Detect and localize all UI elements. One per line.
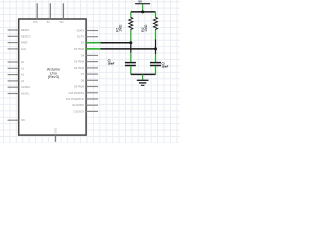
wire bottom bus to ground bbox=[131, 73, 156, 75]
label Arduino Uno (Rev3) bbox=[47, 68, 60, 79]
svg-text:D12/MISO: D12/MISO bbox=[72, 104, 84, 107]
pin 3V3 (top) bbox=[33, 3, 38, 24]
svg-text:AREF: AREF bbox=[21, 42, 28, 45]
pin VIN (top) bbox=[59, 3, 63, 24]
node wire R1 lead to junction (green) bbox=[130, 30, 132, 41]
pin D9 PWM (right) bbox=[74, 86, 98, 89]
svg-text:A5/SCL: A5/SCL bbox=[21, 93, 30, 96]
pin D2 (right) bbox=[81, 42, 98, 45]
pin 5V (top) bbox=[47, 3, 51, 24]
svg-text:100nF: 100nF bbox=[162, 66, 169, 69]
pin N/C (left) bbox=[8, 119, 26, 122]
label R2 1M ohm bbox=[141, 24, 148, 32]
pin D5 PWM (right) bbox=[74, 61, 98, 64]
junction D3/R2/C2 bbox=[154, 47, 157, 50]
pin D12/MISO (right) bbox=[72, 104, 98, 107]
svg-text:VIN: VIN bbox=[59, 21, 63, 24]
pin D8 (right) bbox=[81, 79, 98, 82]
svg-text:D10 PWM/SS: D10 PWM/SS bbox=[69, 92, 85, 95]
wire 5V bus bbox=[131, 11, 156, 13]
capacitor C1 bbox=[125, 63, 136, 66]
label R1 1M ohm bbox=[115, 24, 122, 32]
capacitor C1 top lead (green) bbox=[130, 53, 132, 63]
capacitor C2 top lead (green) bbox=[155, 54, 157, 62]
svg-text:D13/SCK: D13/SCK bbox=[74, 110, 85, 113]
svg-text:RESET: RESET bbox=[21, 29, 30, 32]
pin D7 (right) bbox=[81, 73, 98, 76]
pin RESET (left) bbox=[8, 29, 30, 32]
svg-text:5V: 5V bbox=[47, 21, 50, 24]
wire D3 node black segment bbox=[101, 48, 156, 50]
C1 bottom lead bbox=[130, 66, 132, 74]
pin D6 PWM (right) bbox=[74, 67, 98, 70]
pin D1/TX (right) bbox=[77, 36, 98, 39]
resistor R2 bbox=[154, 17, 158, 30]
junction on 5V bus bbox=[141, 10, 144, 13]
svg-text:GND: GND bbox=[55, 128, 58, 134]
node wire R2 to C2 (black) bbox=[155, 40, 157, 55]
pin A2 (left) bbox=[8, 74, 25, 77]
ground stub bbox=[142, 74, 144, 79]
svg-text:D3 PWM: D3 PWM bbox=[74, 48, 84, 51]
svg-text:D9 PWM: D9 PWM bbox=[74, 86, 84, 89]
power symbol 5V bbox=[135, 0, 150, 12]
pin GND (bottom) bbox=[55, 128, 58, 142]
pin D11 PWM/MOSI (right) bbox=[66, 98, 98, 101]
label C1 100nF bbox=[108, 59, 115, 65]
svg-text:100nF: 100nF bbox=[108, 63, 115, 66]
pin D4 (right) bbox=[81, 54, 98, 57]
pin A1 (left) bbox=[8, 67, 25, 70]
svg-text:D5 PWM: D5 PWM bbox=[74, 61, 84, 64]
pin A0 (left) bbox=[8, 61, 25, 64]
ground symbol bbox=[137, 80, 149, 85]
Arduino Uno (Rev3) component body bbox=[19, 19, 86, 135]
wire D3 to R2/C2 node (green segment) bbox=[86, 48, 100, 50]
junction D2/R1/C1 bbox=[129, 41, 132, 44]
pin D3 PWM (right) bbox=[74, 48, 98, 51]
pin AREF (left) bbox=[8, 42, 29, 45]
node wire R2 lead (green) bbox=[155, 30, 157, 39]
svg-text:D1/TX: D1/TX bbox=[77, 36, 84, 39]
svg-text:D6 PWM: D6 PWM bbox=[74, 67, 84, 70]
pin A4/SDA (left) bbox=[8, 86, 31, 89]
pin ioref (left) bbox=[8, 48, 27, 51]
svg-text:A4/SDA: A4/SDA bbox=[21, 86, 30, 89]
node wire junction to C1 lead (black) bbox=[130, 42, 132, 53]
svg-text:3V3: 3V3 bbox=[33, 21, 38, 24]
svg-text:(Rev3): (Rev3) bbox=[48, 75, 60, 79]
C2 bottom lead bbox=[155, 66, 157, 74]
wire D2 node black segment bbox=[101, 42, 131, 44]
pin RESET2 (left) bbox=[8, 35, 32, 38]
svg-text:N/C: N/C bbox=[21, 119, 26, 122]
pin D10 PWM/SS (right) bbox=[69, 92, 98, 95]
capacitor C2 bbox=[150, 63, 161, 66]
svg-text:D0/RX: D0/RX bbox=[77, 30, 85, 33]
svg-text:1MΩ: 1MΩ bbox=[144, 24, 148, 32]
svg-text:ioref: ioref bbox=[21, 48, 26, 51]
resistor R1 bbox=[129, 17, 133, 30]
svg-text:RESET2: RESET2 bbox=[21, 35, 31, 38]
svg-text:1MΩ: 1MΩ bbox=[118, 24, 122, 32]
pin D13/SCK (right) bbox=[74, 110, 98, 113]
wire D2 to R1/C1 node (green segment) bbox=[86, 42, 100, 44]
resistor R2 branch lead top bbox=[155, 12, 157, 18]
pin A3 (left) bbox=[8, 80, 25, 83]
svg-text:D11 PWM/MOSI: D11 PWM/MOSI bbox=[66, 98, 85, 101]
resistor R1 branch lead top bbox=[130, 12, 132, 18]
pin D0/RX (right) bbox=[77, 30, 98, 33]
label C2 100nF bbox=[162, 63, 169, 69]
pin A5/SCL (left) bbox=[8, 93, 31, 96]
